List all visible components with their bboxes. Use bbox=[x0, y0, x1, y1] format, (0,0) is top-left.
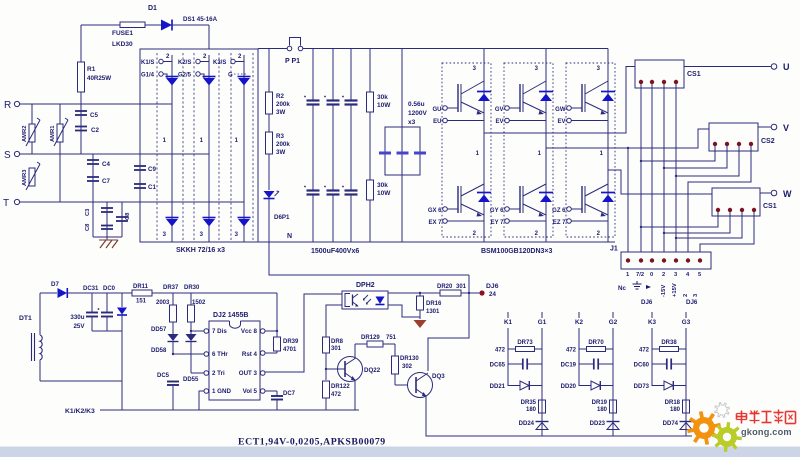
svg-text:D1: D1 bbox=[148, 5, 157, 12]
IGBT half-bridge module box phase 2 bbox=[504, 63, 553, 237]
svg-text:AMR3: AMR3 bbox=[22, 169, 28, 186]
svg-text:1301: 1301 bbox=[426, 309, 440, 315]
svg-text:DR11: DR11 bbox=[133, 284, 149, 290]
resistor DR8 bbox=[323, 337, 330, 353]
wire CS2 pin 4 link bbox=[688, 146, 751, 252]
capacitor DC5 bbox=[167, 381, 179, 383]
electrolytic capacitor bank column 2 bbox=[332, 49, 334, 101]
svg-text:DC7: DC7 bbox=[283, 391, 296, 397]
svg-text:DR16: DR16 bbox=[426, 301, 442, 307]
svg-text:30k: 30k bbox=[377, 94, 388, 101]
svg-text:C7: C7 bbox=[102, 178, 110, 185]
terminal G2 bbox=[612, 312, 614, 318]
svg-text:gkong.com: gkong.com bbox=[741, 427, 792, 437]
svg-text:R2: R2 bbox=[276, 93, 284, 100]
svg-text:751: 751 bbox=[386, 335, 397, 341]
svg-text:DR39: DR39 bbox=[283, 339, 299, 345]
resistor DR38 bbox=[652, 348, 660, 350]
svg-text:DQ3: DQ3 bbox=[432, 373, 445, 380]
svg-text:180: 180 bbox=[597, 407, 608, 413]
svg-text:40R25W: 40R25W bbox=[87, 75, 111, 82]
svg-text:301: 301 bbox=[456, 284, 467, 290]
svg-text:GV: GV bbox=[495, 107, 504, 113]
wire driver feed vertical bbox=[428, 275, 469, 371]
resistor DR30 bbox=[190, 293, 192, 305]
wire DC+ bus bbox=[258, 48, 287, 50]
svg-text:180: 180 bbox=[670, 407, 681, 413]
svg-text:DD74: DD74 bbox=[663, 421, 679, 427]
svg-text:2 Tri: 2 Tri bbox=[212, 370, 225, 377]
svg-text:1 GND: 1 GND bbox=[212, 388, 231, 395]
svg-text:DR129: DR129 bbox=[361, 335, 380, 341]
svg-text:30k: 30k bbox=[377, 182, 388, 189]
terminal G1 bbox=[541, 312, 543, 318]
svg-text:U: U bbox=[783, 62, 790, 72]
svg-text:CS1: CS1 bbox=[687, 71, 701, 78]
varistor AMR3 bbox=[29, 168, 35, 186]
svg-text:DR73: DR73 bbox=[517, 340, 533, 346]
freewheel diode top phase 3 bbox=[601, 91, 615, 93]
svg-text:2003: 2003 bbox=[156, 300, 170, 306]
connector P P1 bbox=[287, 46, 292, 51]
zener D6P1 bbox=[264, 191, 275, 198]
svg-text:Nc: Nc bbox=[618, 285, 626, 292]
IC pins row 6 THr / Rst 4 bbox=[204, 352, 209, 357]
svg-text:4701: 4701 bbox=[283, 347, 297, 353]
svg-text:DC19: DC19 bbox=[561, 363, 577, 369]
svg-text:G1: G1 bbox=[538, 319, 547, 326]
capacitor C5 bbox=[80, 104, 82, 154]
svg-text:C5: C5 bbox=[90, 112, 98, 119]
svg-text:2: 2 bbox=[683, 294, 689, 297]
wire to terminal U bbox=[684, 66, 771, 68]
SCR string 1 line bbox=[171, 55, 173, 242]
capacitor C8 bbox=[121, 202, 123, 237]
svg-text:472: 472 bbox=[639, 348, 650, 354]
svg-text:K2/S: K2/S bbox=[178, 60, 191, 66]
svg-text:EY 7: EY 7 bbox=[491, 220, 505, 226]
wire CS1 bottom pin 1 link bbox=[641, 212, 718, 227]
svg-text:EU: EU bbox=[433, 119, 441, 125]
bottom page strip bbox=[0, 447, 800, 457]
svg-text:D6P1: D6P1 bbox=[274, 214, 290, 221]
ground chassis bbox=[100, 240, 106, 248]
svg-text:DS1 45-16A: DS1 45-16A bbox=[183, 16, 218, 23]
ground DJ6 bbox=[636, 281, 638, 284]
freewheel diode top phase 1 bbox=[477, 91, 491, 93]
resistor DR70 bbox=[579, 348, 587, 350]
wire CS1 bottom pin 3 link bbox=[676, 212, 742, 238]
svg-text:FUSE1: FUSE1 bbox=[112, 30, 133, 37]
svg-text:DD24: DD24 bbox=[519, 421, 535, 427]
diode DD73 bbox=[652, 385, 664, 387]
wire K1 line bbox=[507, 328, 509, 386]
terminal V bbox=[771, 124, 777, 130]
svg-text:6 THr: 6 THr bbox=[212, 351, 228, 358]
thyristor top 1 bbox=[166, 76, 179, 78]
svg-text:7 Dis: 7 Dis bbox=[212, 328, 227, 335]
svg-text:CS2: CS2 bbox=[761, 138, 775, 145]
svg-text:P P1: P P1 bbox=[285, 58, 300, 65]
svg-text:G1/4: G1/4 bbox=[141, 73, 155, 79]
dashed internal line bbox=[218, 53, 220, 242]
IC pins row 2 Tri / OUT 3 bbox=[204, 371, 209, 376]
svg-text:G: G bbox=[228, 73, 233, 79]
resistor DR35 bbox=[539, 400, 546, 413]
svg-text:DR18: DR18 bbox=[665, 400, 681, 406]
terminal R bbox=[14, 101, 19, 106]
svg-text:DC60: DC60 bbox=[634, 363, 650, 369]
resistor DR122 bbox=[323, 381, 330, 398]
wire J1 pin 1 up bbox=[627, 148, 629, 252]
IGBT bottom phase 1 bbox=[443, 207, 448, 212]
svg-text:DR20: DR20 bbox=[437, 284, 453, 290]
IC pins row 1 GND / Vol 5 bbox=[204, 389, 209, 394]
thyristor top 2 bbox=[203, 76, 216, 78]
capacitor DC31 bbox=[91, 293, 93, 312]
wire K2 line bbox=[578, 328, 580, 386]
thyristor top 3 bbox=[238, 76, 251, 78]
svg-text:24: 24 bbox=[489, 291, 496, 298]
thyristor bottom 2 bbox=[203, 217, 216, 219]
svg-text:DR8: DR8 bbox=[331, 339, 344, 345]
wire CS1 bottom pin 4 link bbox=[700, 212, 754, 252]
svg-text:EV: EV bbox=[495, 119, 503, 125]
svg-text:BSM100GB120DN3×3: BSM100GB120DN3×3 bbox=[481, 248, 553, 255]
svg-text:CS1: CS1 bbox=[763, 203, 777, 210]
wire fuse to D1 bbox=[145, 24, 161, 26]
diode DD23 bbox=[607, 421, 620, 423]
freewheel diode bottom phase 3 bbox=[601, 192, 615, 194]
wire phase V output bbox=[546, 129, 709, 148]
svg-text:K1: K1 bbox=[504, 319, 513, 326]
svg-text:DR130: DR130 bbox=[400, 356, 419, 362]
freewheel diode top phase 2 bbox=[539, 91, 553, 93]
resistor DR129 bbox=[355, 343, 367, 345]
wire phase 3 main vertical bbox=[607, 49, 609, 243]
dashed internal line bbox=[230, 53, 232, 242]
IGBT half-bridge module box phase 3 bbox=[566, 63, 615, 237]
wire pin2 lead bbox=[191, 372, 204, 374]
watermark orange gear bbox=[687, 411, 721, 445]
capacitor DC0 bbox=[106, 293, 108, 312]
watermark small gear bbox=[715, 403, 730, 418]
wire CS1 bottom pin 2 link bbox=[664, 212, 730, 233]
connector J1 bbox=[621, 252, 711, 269]
wire fuse feed top bbox=[81, 24, 120, 26]
svg-text:472: 472 bbox=[331, 392, 342, 398]
svg-text:DD21: DD21 bbox=[490, 384, 506, 390]
capacitor C2 bbox=[75, 126, 87, 128]
wire K1/K2/K3 rail bbox=[100, 409, 359, 411]
svg-text:C8: C8 bbox=[85, 223, 91, 231]
IGBT half-bridge module box phase 1 bbox=[442, 63, 491, 237]
diode DD21 bbox=[508, 385, 520, 387]
svg-text:K3: K3 bbox=[648, 319, 657, 326]
svg-text:DD20: DD20 bbox=[561, 384, 577, 390]
capacitor C9 bbox=[134, 165, 146, 167]
capacitor DC7 bbox=[265, 390, 277, 392]
wire phase 1 main vertical bbox=[483, 49, 485, 243]
svg-text:GX 6: GX 6 bbox=[428, 208, 442, 214]
svg-text:7/2: 7/2 bbox=[636, 272, 644, 278]
svg-text:DD23: DD23 bbox=[590, 421, 606, 427]
svg-text:1502: 1502 bbox=[192, 300, 206, 306]
wire phase U output bbox=[484, 67, 635, 134]
svg-text:D7: D7 bbox=[51, 281, 59, 288]
wire to terminal V bbox=[758, 126, 771, 128]
svg-text:472: 472 bbox=[566, 348, 577, 354]
wire to DR11 bbox=[67, 292, 132, 294]
svg-text:DR122: DR122 bbox=[331, 384, 350, 390]
resistor 30k bottom bbox=[367, 180, 374, 200]
watermark green gear bbox=[712, 422, 742, 452]
terminal K3 bbox=[651, 312, 653, 318]
wire R phase bbox=[20, 103, 172, 105]
snubber capacitor group 0.56u bbox=[401, 49, 403, 243]
transistor DQ3 bbox=[408, 373, 433, 398]
svg-text:Vol 5: Vol 5 bbox=[243, 388, 258, 395]
svg-text:DR37: DR37 bbox=[163, 285, 179, 291]
wire DT1 top bbox=[40, 292, 57, 294]
svg-text:Rst 4: Rst 4 bbox=[242, 351, 258, 358]
svg-text:330u: 330u bbox=[70, 314, 84, 321]
svg-text:N: N bbox=[287, 233, 292, 240]
svg-text:OUT 3: OUT 3 bbox=[239, 370, 258, 377]
varistor AMR1 bbox=[59, 104, 61, 202]
resistor R3 bbox=[266, 132, 273, 154]
freewheel diode bottom phase 2 bbox=[539, 192, 553, 194]
svg-text:DR19: DR19 bbox=[592, 400, 608, 406]
svg-text:DD73: DD73 bbox=[634, 384, 650, 390]
svg-text:472: 472 bbox=[495, 348, 506, 354]
electrolytic capacitor bank column 1 bbox=[312, 49, 314, 101]
wire DC- bus bbox=[140, 241, 615, 243]
IC DJ2 1455B bbox=[209, 321, 260, 400]
svg-text:EV: EV bbox=[557, 119, 565, 125]
svg-text:10W: 10W bbox=[377, 190, 391, 197]
diode DD57 bbox=[172, 322, 174, 334]
terminal U bbox=[771, 64, 777, 70]
svg-text:DPH2: DPH2 bbox=[356, 282, 375, 289]
wire opto lower-left to DR8 bbox=[326, 305, 342, 337]
svg-text:J1: J1 bbox=[610, 246, 618, 253]
dashed internal line bbox=[252, 53, 254, 242]
diode DD58 bbox=[190, 322, 192, 334]
terminal T bbox=[14, 199, 19, 204]
svg-text:K3/S: K3/S bbox=[213, 60, 226, 66]
current sensor CS2 bbox=[709, 123, 758, 151]
svg-text:GW: GW bbox=[555, 107, 566, 113]
wire DT1 bottom bbox=[40, 380, 122, 382]
svg-text:AMR2: AMR2 bbox=[22, 126, 28, 142]
capacitor C7 bbox=[87, 176, 99, 178]
resistor R2 bbox=[268, 49, 270, 93]
svg-text:C3: C3 bbox=[85, 208, 91, 216]
wire pin6 lead bbox=[173, 353, 204, 355]
wire CS2 pin 2 link bbox=[664, 146, 727, 168]
svg-text:W: W bbox=[783, 189, 792, 199]
thyristor bottom 3 bbox=[238, 217, 251, 219]
IC pins row 7 Dis / Vcc 8 bbox=[204, 329, 209, 334]
optocoupler DPH2 bbox=[342, 291, 388, 309]
svg-text:DC0: DC0 bbox=[103, 286, 116, 292]
wire opto right-top bbox=[388, 292, 440, 294]
wire mid rail from bus bbox=[269, 242, 469, 275]
svg-text:0.56u: 0.56u bbox=[408, 101, 425, 108]
svg-text:C2: C2 bbox=[91, 127, 99, 134]
svg-text:DC31: DC31 bbox=[83, 286, 99, 292]
svg-text:200k: 200k bbox=[276, 101, 290, 108]
svg-text:K1/K2/K3: K1/K2/K3 bbox=[65, 408, 95, 415]
svg-text:Vcc 8: Vcc 8 bbox=[241, 328, 258, 335]
electrolytic capacitor bank column 3 bbox=[350, 49, 352, 101]
wire pin7 lead bbox=[191, 330, 204, 332]
wire aux bottoms bbox=[92, 330, 122, 332]
svg-text:x3: x3 bbox=[408, 119, 416, 126]
fuse FUSE1 bbox=[120, 22, 145, 28]
svg-text:DJ6: DJ6 bbox=[686, 299, 698, 306]
terminal K2 bbox=[578, 312, 580, 318]
thyristor bottom 1 bbox=[166, 217, 179, 219]
svg-text:LKD30: LKD30 bbox=[112, 41, 133, 48]
svg-text:G3: G3 bbox=[682, 319, 691, 326]
freewheel diode bottom phase 1 bbox=[477, 192, 491, 194]
svg-text:151: 151 bbox=[136, 299, 147, 305]
svg-text:V: V bbox=[783, 123, 789, 133]
wire opto lower-right to ground bbox=[388, 305, 420, 317]
resistor DR73 bbox=[508, 348, 516, 350]
svg-text:10W: 10W bbox=[377, 102, 391, 109]
capacitor DC19 bbox=[579, 363, 594, 365]
svg-text:1500uF400Vx6: 1500uF400Vx6 bbox=[311, 248, 359, 255]
svg-text:DQ22: DQ22 bbox=[364, 367, 381, 374]
current sensor CS1 bottom bbox=[712, 188, 760, 216]
svg-text:0: 0 bbox=[650, 272, 653, 278]
svg-text:180: 180 bbox=[526, 407, 537, 413]
svg-text:T: T bbox=[3, 198, 9, 209]
svg-text:SKKH 72/16 x3: SKKH 72/16 x3 bbox=[176, 247, 225, 254]
svg-text:AMR1: AMR1 bbox=[50, 125, 56, 142]
svg-text:DJ6: DJ6 bbox=[486, 283, 499, 290]
resistor DR11 bbox=[132, 290, 152, 296]
svg-text:EZ 7: EZ 7 bbox=[553, 220, 566, 226]
svg-text:1200V: 1200V bbox=[408, 110, 427, 117]
wire G3 line bbox=[685, 328, 687, 436]
svg-text:DD55: DD55 bbox=[183, 377, 199, 383]
wire G1 line bbox=[541, 328, 543, 436]
diode D7 bbox=[58, 288, 68, 298]
svg-text:25V: 25V bbox=[73, 323, 85, 330]
svg-text:R: R bbox=[4, 100, 11, 111]
capacitor C4 bbox=[92, 154, 94, 237]
svg-text:EX 7: EX 7 bbox=[428, 220, 442, 226]
svg-text:-15V: -15V bbox=[661, 285, 667, 297]
power ground symbol bbox=[414, 320, 427, 328]
zener diode aux bbox=[121, 293, 123, 307]
svg-text:DR30: DR30 bbox=[184, 285, 200, 291]
capacitor C1 bbox=[134, 183, 146, 185]
svg-text:C4: C4 bbox=[102, 161, 110, 168]
wire S phase bbox=[20, 153, 209, 155]
svg-text:DR38: DR38 bbox=[661, 340, 677, 346]
svg-text:GY 6: GY 6 bbox=[490, 208, 504, 214]
wire D1 to rectifier top bbox=[172, 24, 209, 26]
svg-text:3W: 3W bbox=[276, 149, 285, 156]
wire CS2 pin 1 link bbox=[641, 146, 715, 161]
dashed internal line bbox=[182, 53, 184, 242]
wire pin1 GND lead bbox=[199, 391, 204, 410]
IGBT top phase 3 bbox=[567, 106, 572, 111]
svg-text:DC65: DC65 bbox=[490, 363, 506, 369]
watermark chinese text bbox=[737, 410, 796, 424]
capacitor C3 bbox=[106, 202, 108, 240]
SCR string 3 line bbox=[243, 55, 245, 242]
svg-text:R3: R3 bbox=[276, 133, 284, 140]
svg-text:K1/S: K1/S bbox=[141, 60, 154, 66]
wire pin3 OUT to opto bbox=[265, 294, 342, 372]
wire G2 line bbox=[612, 328, 614, 436]
resistor R1 bbox=[80, 25, 82, 62]
wire cap bottoms bbox=[93, 236, 122, 238]
current sensor CS1 top bbox=[635, 60, 684, 88]
svg-text:G2/5: G2/5 bbox=[178, 73, 192, 79]
wire phase W output bbox=[608, 170, 712, 194]
svg-text:G2: G2 bbox=[609, 319, 618, 326]
wire CS1 pins to J1 bbox=[640, 84, 642, 252]
resistor DR19 bbox=[610, 400, 617, 413]
svg-text:GU: GU bbox=[433, 107, 442, 113]
svg-text:DC5: DC5 bbox=[157, 373, 170, 379]
terminal W bbox=[771, 190, 777, 196]
wire CS2 pin 3 link bbox=[676, 146, 739, 176]
dashed internal line bbox=[156, 53, 158, 242]
svg-text:C9: C9 bbox=[148, 166, 156, 173]
IGBT bottom phase 3 bbox=[567, 207, 572, 212]
svg-text:2: 2 bbox=[662, 272, 665, 278]
diode DD74 bbox=[680, 421, 693, 423]
SCR string 2 line bbox=[208, 55, 210, 242]
svg-text:R1: R1 bbox=[87, 66, 96, 73]
svg-text:301: 301 bbox=[331, 346, 342, 352]
dashed internal line bbox=[193, 53, 195, 242]
resistor DR37 bbox=[172, 293, 174, 305]
IGBT top phase 2 bbox=[505, 106, 510, 111]
svg-text:C8: C8 bbox=[125, 212, 131, 220]
terminal G3 bbox=[685, 312, 687, 318]
svg-text:DJ2 1455B: DJ2 1455B bbox=[213, 312, 248, 319]
resistor DR130 bbox=[394, 344, 396, 356]
svg-text:DT1: DT1 bbox=[19, 315, 32, 322]
svg-text:GZ 6: GZ 6 bbox=[552, 208, 566, 214]
svg-text:C1: C1 bbox=[148, 184, 156, 191]
svg-text:302: 302 bbox=[402, 364, 413, 370]
diode DD20 bbox=[579, 385, 591, 387]
wire to terminal W bbox=[760, 192, 771, 194]
resistor 30k top bbox=[369, 49, 371, 93]
svg-text:S: S bbox=[4, 150, 11, 161]
wire DQ3 emitter to gate bus bbox=[426, 396, 692, 436]
terminal S bbox=[14, 151, 19, 156]
svg-text:DD57: DD57 bbox=[151, 327, 167, 333]
svg-text:200k: 200k bbox=[276, 141, 290, 148]
svg-text:3W: 3W bbox=[276, 109, 285, 116]
svg-text:K2: K2 bbox=[575, 319, 584, 326]
svg-text:DR70: DR70 bbox=[588, 340, 604, 346]
capacitor DC65 bbox=[508, 363, 523, 365]
diode D1 bbox=[161, 20, 172, 31]
resistor DR16 bbox=[419, 293, 421, 296]
